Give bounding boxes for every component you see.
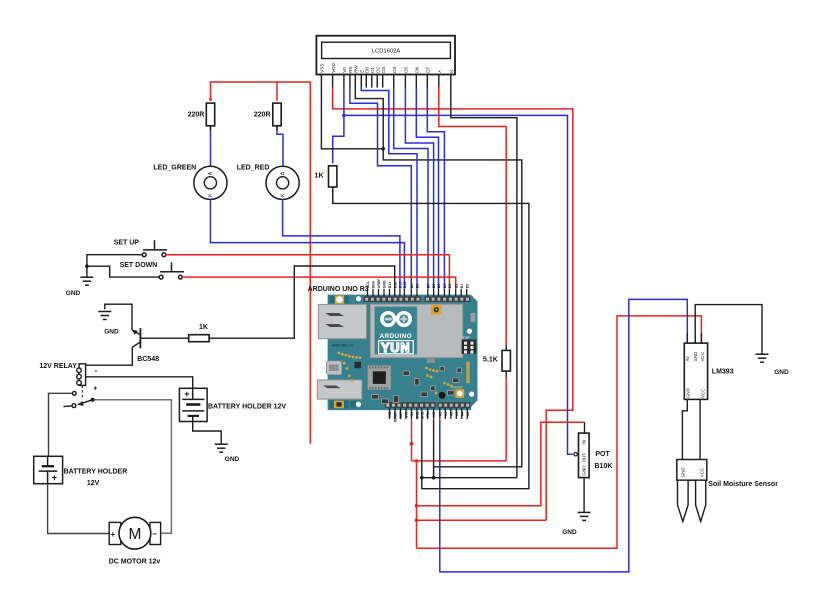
LCD pin stub D0 (365, 75, 367, 88)
ground battery1 (215, 444, 228, 452)
svg-text:BATTERY HOLDER: BATTERY HOLDER (64, 469, 128, 476)
LCD pin stub D7 (426, 75, 428, 88)
comparator LM393 (684, 343, 707, 399)
svg-text:AREF: AREF (377, 278, 381, 288)
Arduino USB-A connector lower (317, 380, 362, 399)
LCD pin stub D2 (376, 75, 378, 88)
wire 5V to VDD rail riser (417, 519, 547, 521)
svg-text:RST: RST (399, 411, 403, 419)
wire GND to BC548 emitter (105, 304, 132, 330)
pushbutton SET UP (142, 240, 167, 256)
wire A backlight through 5.1K upper (439, 87, 506, 344)
battery BATTERY HOLDER 12V (upper) (179, 388, 207, 421)
LCD pin stub D3 (382, 75, 384, 88)
svg-text:D6: D6 (415, 66, 420, 72)
wire relay NO to battery2 plus (49, 393, 73, 456)
wire GND to SET DOWN (87, 266, 159, 277)
relay switch contacts (63, 391, 92, 407)
wire LED_GREEN cathode to Arduino pin (210, 199, 404, 288)
svg-text:LED_RED: LED_RED (237, 165, 270, 172)
svg-text:YUN: YUN (381, 341, 410, 355)
svg-text:OUT: OUT (582, 453, 587, 463)
svg-text:220R: 220R (254, 112, 271, 119)
Arduino right edge connector (471, 313, 476, 322)
wire K to GND net down right side (451, 87, 517, 477)
wire E to Arduino (361, 87, 417, 288)
ground BC548 (98, 312, 111, 320)
svg-text:BC548: BC548 (137, 356, 159, 363)
svg-text:D12: D12 (393, 282, 397, 288)
LCD pin stub D1 (371, 75, 373, 88)
resistor R1 220R (206, 103, 214, 126)
svg-text:A3: A3 (455, 411, 459, 416)
wire BC548 to relay coil (86, 347, 133, 365)
svg-text:DC MOTOR 12v: DC MOTOR 12v (109, 559, 161, 566)
node relay common pivot (91, 398, 95, 402)
wire 5V branch down (416, 461, 418, 548)
svg-text:GND: GND (225, 456, 240, 463)
LCD pin stub A (438, 75, 440, 88)
svg-text:D2: D2 (454, 284, 458, 289)
svg-text:BATTERY HOLDER 12V: BATTERY HOLDER 12V (208, 404, 286, 411)
svg-text:D7: D7 (426, 66, 431, 72)
wire POT to GND (583, 478, 585, 512)
wire 5V node across (412, 460, 507, 462)
svg-text:RW: RW (354, 65, 359, 73)
svg-text:D8: D8 (416, 284, 420, 289)
wire branch to 220R R2 (276, 82, 278, 101)
svg-text:VCC: VCC (700, 352, 705, 361)
node 5V POT branch (415, 504, 419, 508)
wire relay coil to battery1 plus (86, 377, 193, 400)
svg-text:A2: A2 (449, 411, 453, 416)
svg-text:VCC: VCC (699, 468, 704, 477)
svg-text:D6: D6 (432, 284, 436, 289)
svg-text:ARDUINO.CC: ARDUINO.CC (332, 343, 354, 347)
svg-text:YUN RST: YUN RST (451, 385, 463, 389)
LCD inner screen box (322, 42, 451, 58)
wire battery1 minus to GND (193, 422, 222, 444)
svg-text:D5: D5 (404, 66, 409, 72)
svg-text:LED_GREEN: LED_GREEN (153, 165, 196, 172)
resistor R4 1K horizontal (189, 335, 209, 342)
svg-text:GND: GND (66, 290, 81, 297)
svg-text:NC: NC (388, 411, 392, 417)
Arduino top-left header (364, 296, 421, 302)
ground POT (578, 512, 591, 520)
node GND join1 (420, 476, 424, 480)
svg-text:SET DOWN: SET DOWN (120, 262, 158, 269)
svg-text:ARDUINO: ARDUINO (379, 333, 412, 340)
svg-text:ARDUINO UNO R3: ARDUINO UNO R3 (308, 286, 369, 293)
pushbutton SET DOWN (159, 262, 184, 279)
svg-text:VCC: VCC (700, 389, 705, 398)
wire 220R R1 to LED_GREEN (210, 126, 212, 166)
LCD pin stub RW (354, 75, 356, 88)
ground LM393 (756, 354, 769, 362)
Arduino top-right header (425, 296, 471, 302)
svg-text:D10: D10 (403, 282, 407, 288)
wire RW to GND net down right side (355, 87, 522, 466)
svg-text:IN: IN (582, 440, 587, 445)
wire V0 branch to 1K R3 (333, 87, 344, 163)
svg-text:D2: D2 (375, 66, 380, 72)
svg-text:GND: GND (420, 411, 424, 419)
svg-text:VSS: VSS (320, 64, 325, 73)
transistor Q1 BC548 (132, 328, 140, 348)
sensor Soil Moisture Sensor (677, 460, 707, 522)
svg-text:A0: A0 (438, 411, 442, 416)
svg-text:5V: 5V (410, 411, 414, 416)
svg-text:ICSP: ICSP (462, 336, 469, 340)
svg-text:B10K: B10K (595, 463, 613, 470)
resistor R2 220R (273, 103, 281, 126)
svg-text:D13: D13 (388, 282, 392, 288)
relay mechanical link (dashed) (81, 386, 83, 399)
svg-text:SET UP: SET UP (114, 240, 140, 247)
node VSS RW junction (381, 147, 385, 151)
svg-text:D4: D4 (443, 284, 447, 289)
svg-text:+: + (184, 389, 189, 399)
svg-text:-: - (95, 366, 98, 375)
node button GND junction (85, 264, 89, 268)
LCD pin stub D4 (393, 75, 395, 88)
wire LM393 to sensor VCC (699, 399, 701, 459)
svg-text:D0: D0 (365, 66, 370, 72)
svg-text:GND: GND (680, 467, 685, 477)
svg-text:D7: D7 (426, 284, 430, 289)
Arduino small components (355, 359, 462, 404)
svg-text:SDA: SDA (372, 280, 376, 288)
LCD pin stub E (360, 75, 362, 88)
Arduino bottom-right header (438, 402, 471, 408)
LCD pin stub K (450, 75, 452, 88)
LM393 top pin stubs (687, 333, 701, 343)
svg-text:SCL: SCL (366, 280, 370, 288)
svg-text:GND: GND (104, 328, 119, 335)
wire Arduino A0 to LM393 OUT (440, 299, 688, 572)
LCD pin stub V0 (343, 75, 345, 88)
node GND join2 (432, 476, 436, 480)
wire LM393 GND to ground (695, 305, 762, 354)
node 5V join (410, 442, 414, 446)
Arduino micro-USB connector (326, 361, 341, 375)
LCD pin stub VSS (320, 75, 322, 88)
svg-text:A4: A4 (460, 411, 464, 416)
wire 5.1K lower to 5V node (505, 378, 507, 461)
Arduino gold pads (338, 352, 453, 395)
wire D4 to Arduino (394, 87, 428, 288)
wire 5V rail to 220R R1 and down left of Arduino (211, 82, 311, 444)
svg-text:A5: A5 (466, 411, 470, 416)
svg-text:GND: GND (582, 465, 587, 476)
relay coil 12V RELAY (77, 364, 86, 386)
wire VDD 5V rail across and down right (333, 87, 573, 520)
Arduino top pin stubs and labels (366, 278, 469, 297)
svg-text:D3: D3 (448, 284, 452, 289)
svg-text:+: + (52, 472, 57, 482)
svg-text:D1: D1 (460, 284, 464, 289)
node V0 junction (342, 114, 346, 118)
svg-text:D4: D4 (392, 66, 397, 72)
svg-text:+: + (93, 386, 97, 393)
svg-text:D1: D1 (370, 66, 375, 72)
wire Arduino GND2 pin down (433, 419, 435, 478)
LCD display LCD1602A outer box (316, 36, 455, 75)
wire Arduino 5V pin down (411, 419, 413, 461)
LED LED_GREEN (194, 166, 227, 199)
svg-text:−: − (152, 530, 157, 539)
Arduino UNO R3 (YUN) board (328, 295, 478, 411)
wire D6 to Arduino (416, 87, 438, 288)
svg-text:RS: RS (348, 66, 353, 72)
wire 1K R4 to Arduino D8 (209, 266, 395, 338)
Arduino bottom-left component (330, 400, 356, 408)
LCD pin stub VDD (332, 75, 334, 88)
wire relay common to motor right (95, 400, 172, 533)
wire VSS to GND net (321, 87, 383, 148)
wire LM393 to sensor GND (682, 399, 687, 459)
svg-text:IOREF: IOREF (394, 411, 398, 423)
svg-text:NC: NC (432, 411, 436, 417)
motor DC MOTOR 12v (109, 517, 160, 549)
LCD pin stub D6 (415, 75, 417, 88)
wire RS to Arduino (350, 87, 411, 288)
svg-text:POT: POT (595, 451, 610, 458)
Arduino component capacitor (439, 392, 446, 399)
svg-text:12V RELAY: 12V RELAY (39, 363, 77, 370)
svg-text:D9: D9 (410, 284, 414, 289)
svg-text:GND: GND (416, 411, 420, 419)
potentiometer POT B10K (579, 433, 590, 478)
svg-text:ifiediSolar: ifiediSolar (466, 366, 470, 382)
battery BATTERY HOLDER 12V (lower left) (34, 456, 63, 483)
LED LED_RED (266, 166, 299, 199)
wire 220R R2 to LED_RED (277, 126, 283, 166)
wire 5V to LM393 VCC (417, 316, 702, 548)
Arduino antenna connector (431, 305, 442, 315)
svg-text:GND: GND (562, 529, 577, 536)
svg-text:LCD1602A: LCD1602A (372, 48, 400, 54)
svg-text:VIN: VIN (426, 411, 430, 417)
svg-text:+: + (111, 530, 116, 539)
wire 1K R3 to GND net down right side (333, 187, 529, 489)
Arduino reset button (455, 389, 464, 398)
Arduino processor chip (368, 366, 391, 390)
Arduino ICSP header (462, 340, 477, 354)
Arduino YUN logo shield (371, 304, 463, 357)
svg-text:1K: 1K (199, 324, 208, 331)
svg-text:GND: GND (693, 352, 698, 362)
wire SET UP to Arduino D1 (166, 255, 450, 289)
svg-text:V0: V0 (342, 67, 347, 73)
LCD pin stub D5 (404, 75, 406, 88)
node arrow at R1 top (209, 98, 212, 101)
wire 5V to POT IN (417, 422, 585, 506)
Arduino USB-A connector upper (318, 304, 366, 338)
resistor R3 1K vertical (329, 166, 337, 187)
svg-text:Soil Moisture Sensor: Soil Moisture Sensor (708, 481, 778, 488)
svg-text:220R: 220R (188, 112, 205, 119)
node 5V branch (415, 459, 419, 463)
svg-text:M: M (128, 526, 141, 543)
svg-text:D11: D11 (399, 282, 403, 288)
wire SET UP to GND (87, 255, 142, 277)
svg-text:1K: 1K (315, 172, 324, 179)
svg-text:5.1K: 5.1K (483, 356, 498, 363)
svg-text:D0: D0 (465, 284, 469, 289)
svg-text:A0: A0 (685, 356, 690, 362)
svg-text:D5: D5 (437, 284, 441, 289)
Arduino gold label strip (466, 362, 469, 383)
wire V0 to POT OUT (344, 115, 573, 454)
wire battery2 to motor left (48, 484, 110, 534)
Arduino bottom pin stubs and labels (388, 408, 470, 422)
wire SET DOWN to Arduino D0 (182, 277, 455, 289)
svg-text:3V3: 3V3 (405, 411, 409, 417)
svg-text:VDD: VDD (331, 62, 336, 72)
wire D7 to Arduino (427, 87, 444, 288)
Arduino bottom-left header (385, 402, 436, 408)
node 5V rail branch (415, 518, 419, 522)
wire GND row2 (422, 477, 517, 479)
ground buttons (80, 277, 93, 285)
wire LED_RED cathode to Arduino pin (283, 199, 400, 288)
svg-text:GND: GND (774, 369, 789, 376)
POT OUT contact circle (574, 453, 577, 456)
svg-text:A1: A1 (444, 411, 448, 416)
svg-text:GND: GND (686, 388, 691, 398)
svg-text:GND: GND (383, 280, 387, 288)
svg-text:12V: 12V (87, 480, 100, 487)
wire D5 to Arduino (405, 87, 433, 288)
resistor R5 5.1K (502, 350, 510, 371)
svg-text:D3: D3 (381, 66, 386, 72)
LCD pin stub RS (349, 75, 351, 88)
wire BC548 base to 1K R4 (140, 337, 188, 339)
wire Arduino GND pin down (421, 419, 423, 478)
svg-text:LM393: LM393 (712, 368, 734, 375)
